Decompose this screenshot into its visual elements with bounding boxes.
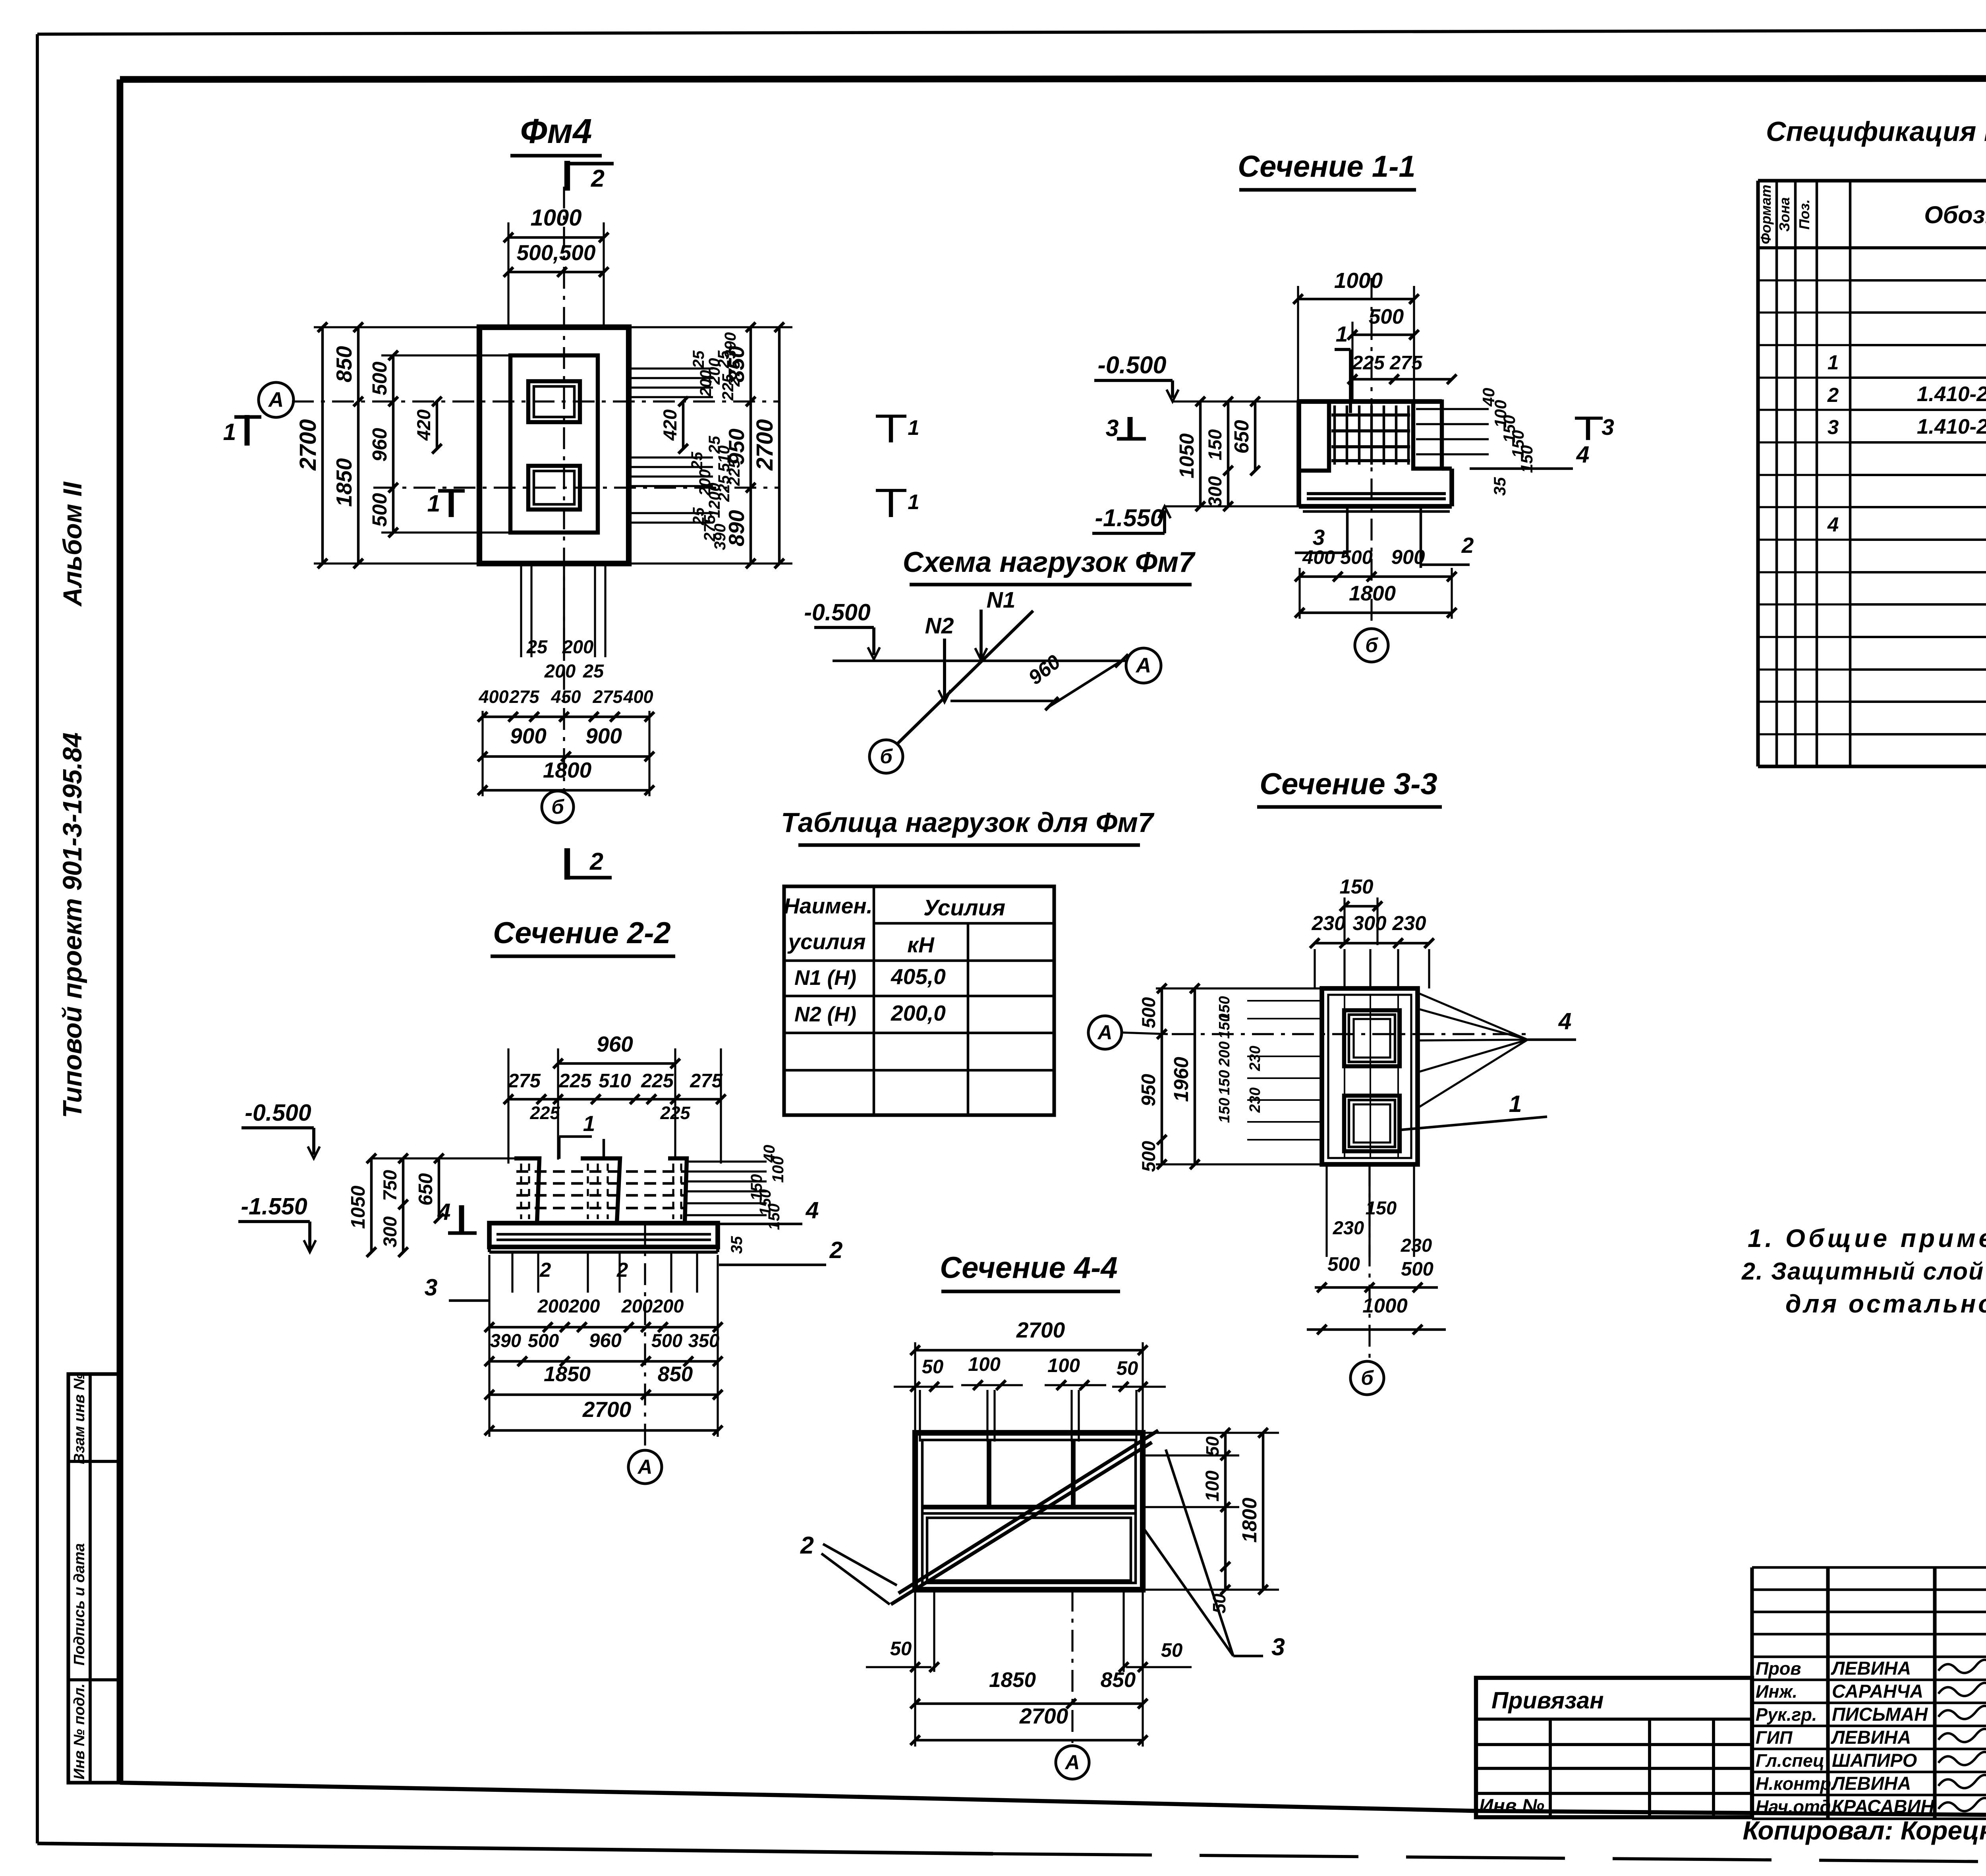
svg-text:350: 350 — [688, 1330, 719, 1351]
svg-text:Сечение 3-3: Сечение 3-3 — [1260, 767, 1437, 801]
svg-text:Инв № подл.: Инв № подл. — [71, 1683, 88, 1779]
svg-text:Сечение 4-4: Сечение 4-4 — [940, 1251, 1117, 1285]
svg-text:300: 300 — [1204, 476, 1225, 507]
svg-text:25: 25 — [583, 660, 604, 681]
svg-text:850: 850 — [658, 1363, 693, 1386]
svg-text:510: 510 — [599, 1070, 631, 1092]
svg-text:1: 1 — [1336, 322, 1348, 346]
svg-text:500: 500 — [368, 361, 391, 395]
svg-text:Поз.: Поз. — [1796, 199, 1812, 230]
svg-text:Подпись и дата: Подпись и дата — [71, 1543, 88, 1666]
svg-text:Схема нагрузок Фм7: Схема нагрузок Фм7 — [903, 546, 1196, 578]
svg-text:Сечение 2-2: Сечение 2-2 — [493, 916, 670, 950]
svg-text:1050: 1050 — [348, 1185, 369, 1229]
svg-text:2700: 2700 — [1016, 1318, 1065, 1342]
svg-text:275: 275 — [690, 1070, 723, 1092]
svg-text:ГИП: ГИП — [1756, 1727, 1793, 1748]
svg-text:500: 500 — [528, 1330, 559, 1351]
svg-text:2: 2 — [539, 1258, 551, 1281]
svg-text:850: 850 — [1101, 1668, 1136, 1692]
svg-text:ПИСЬМАН: ПИСЬМАН — [1832, 1704, 1928, 1725]
svg-text:3: 3 — [1602, 415, 1614, 440]
svg-text:3: 3 — [425, 1274, 438, 1301]
svg-text:275: 275 — [508, 1070, 541, 1092]
svg-text:1: 1 — [908, 490, 919, 514]
svg-text:1850: 1850 — [332, 458, 356, 507]
svg-text:ЛЕВИНА: ЛЕВИНА — [1831, 1727, 1911, 1748]
svg-text:4: 4 — [1827, 513, 1839, 536]
svg-text:390: 390 — [490, 1330, 521, 1351]
svg-text:1: 1 — [908, 416, 919, 440]
svg-text:4: 4 — [1558, 1008, 1572, 1035]
svg-text:1000: 1000 — [1334, 268, 1383, 293]
svg-text:1960: 1960 — [1170, 1057, 1192, 1102]
svg-text:25: 25 — [690, 350, 707, 369]
svg-text:Рук.гр.: Рук.гр. — [1756, 1704, 1817, 1725]
svg-text:N1 (Н): N1 (Н) — [794, 966, 856, 990]
svg-text:2. Защитный слой бетона для н: 2. Защитный слой бетона для нижней армат… — [1741, 1258, 1986, 1285]
svg-text:-0.500: -0.500 — [245, 1100, 311, 1126]
svg-text:225: 225 — [1352, 352, 1385, 374]
svg-text:Гл.спец: Гл.спец — [1756, 1751, 1824, 1771]
svg-text:б: б — [1361, 1366, 1374, 1389]
svg-text:3: 3 — [1271, 1633, 1285, 1660]
svg-text:2700: 2700 — [752, 419, 778, 471]
svg-text:А: А — [1097, 1021, 1113, 1044]
svg-text:150: 150 — [1216, 1013, 1233, 1038]
svg-text:230: 230 — [1392, 912, 1426, 934]
svg-text:Обозначение: Обозначение — [1924, 201, 1986, 228]
svg-text:1.410-2 вып.1: 1.410-2 вып.1 — [1917, 415, 1986, 438]
svg-text:890: 890 — [724, 510, 749, 546]
svg-text:900: 900 — [585, 724, 622, 748]
svg-text:-0.500: -0.500 — [1098, 351, 1167, 378]
svg-text:1850: 1850 — [989, 1668, 1036, 1692]
svg-text:Зона: Зона — [1776, 197, 1793, 232]
svg-text:2700: 2700 — [295, 419, 321, 471]
svg-text:50: 50 — [1209, 1594, 1229, 1614]
svg-text:Типовой проект 901-3-195.84: Типовой проект 901-3-195.84 — [58, 732, 87, 1118]
svg-text:Пров: Пров — [1756, 1658, 1801, 1679]
svg-text:Сечение 1-1: Сечение 1-1 — [1238, 150, 1415, 183]
svg-text:35: 35 — [728, 1236, 746, 1254]
svg-text:500: 500 — [1340, 547, 1373, 568]
svg-text:150: 150 — [1204, 429, 1225, 460]
svg-text:Н.контр.: Н.контр. — [1756, 1774, 1836, 1794]
svg-text:А: А — [1064, 1751, 1080, 1774]
svg-text:N1: N1 — [987, 587, 1016, 613]
svg-text:300: 300 — [379, 1216, 400, 1247]
svg-text:100: 100 — [1047, 1355, 1080, 1376]
svg-text:500: 500 — [651, 1330, 682, 1351]
svg-text:25: 25 — [688, 452, 706, 470]
svg-text:3: 3 — [1313, 525, 1325, 550]
svg-text:ЛЕВИНА: ЛЕВИНА — [1831, 1773, 1911, 1794]
svg-text:950: 950 — [724, 428, 749, 465]
svg-text:Фм4: Фм4 — [520, 112, 592, 151]
svg-text:Наимен.: Наимен. — [784, 894, 873, 918]
svg-text:275: 275 — [509, 687, 539, 707]
svg-text:50: 50 — [890, 1638, 912, 1660]
svg-text:кН: кН — [907, 932, 935, 957]
svg-text:960: 960 — [589, 1330, 622, 1351]
svg-text:500: 500 — [1138, 1141, 1159, 1172]
svg-text:1050: 1050 — [1175, 433, 1198, 478]
svg-text:400: 400 — [623, 687, 653, 707]
svg-text:900: 900 — [510, 724, 547, 748]
svg-text:225: 225 — [529, 1103, 560, 1123]
svg-text:500: 500 — [1401, 1258, 1433, 1280]
svg-text:230: 230 — [1311, 912, 1345, 934]
svg-text:Инв.№: Инв.№ — [1479, 1795, 1544, 1817]
svg-text:1: 1 — [583, 1111, 595, 1136]
svg-text:2: 2 — [591, 165, 605, 192]
svg-text:б: б — [880, 745, 893, 768]
svg-text:для остальной – 20мм.: для остальной – 20мм. — [1785, 1289, 1986, 1318]
svg-text:2: 2 — [800, 1532, 814, 1559]
svg-text:650: 650 — [415, 1173, 437, 1206]
svg-text:650: 650 — [1230, 420, 1253, 454]
svg-text:усилия: усилия — [787, 929, 866, 954]
svg-text:100: 100 — [769, 1156, 787, 1183]
svg-text:230: 230 — [1247, 1046, 1263, 1071]
svg-text:50: 50 — [1202, 1436, 1223, 1456]
svg-text:КРАСАВИН: КРАСАВИН — [1832, 1796, 1934, 1817]
svg-text:Таблица нагрузок для Фм7: Таблица нагрузок для Фм7 — [781, 807, 1155, 838]
svg-text:4: 4 — [806, 1197, 819, 1224]
svg-text:Инж.: Инж. — [1756, 1681, 1797, 1702]
svg-text:200: 200 — [1216, 1041, 1233, 1067]
svg-text:2: 2 — [589, 848, 603, 875]
svg-text:230: 230 — [1401, 1235, 1432, 1256]
svg-text:Усилия: Усилия — [923, 895, 1005, 921]
svg-text:1000: 1000 — [530, 205, 582, 231]
svg-text:-1.550: -1.550 — [1095, 504, 1164, 531]
svg-text:450: 450 — [551, 687, 581, 707]
svg-text:САРАНЧА: САРАНЧА — [1832, 1681, 1923, 1702]
svg-text:150: 150 — [1216, 1098, 1233, 1123]
svg-text:500: 500 — [1138, 997, 1159, 1028]
svg-text:Привязан: Привязан — [1491, 1687, 1604, 1714]
svg-text:200200: 200200 — [621, 1295, 684, 1316]
svg-text:405,0: 405,0 — [891, 964, 946, 989]
svg-text:1: 1 — [1509, 1091, 1522, 1117]
svg-text:950: 950 — [1138, 1074, 1159, 1106]
svg-text:б: б — [1365, 634, 1378, 656]
svg-text:500: 500 — [368, 493, 391, 527]
svg-text:750: 750 — [379, 1170, 400, 1201]
svg-text:200: 200 — [562, 636, 593, 657]
svg-text:1850: 1850 — [544, 1363, 591, 1386]
svg-text:1: 1 — [427, 490, 440, 517]
svg-text:А: А — [637, 1455, 653, 1478]
svg-text:900: 900 — [1391, 546, 1425, 568]
svg-text:420: 420 — [659, 409, 680, 441]
svg-text:230: 230 — [1333, 1217, 1364, 1238]
svg-text:1: 1 — [1828, 351, 1839, 374]
svg-text:Нач.отд.: Нач.отд. — [1756, 1797, 1836, 1817]
svg-text:-1.550: -1.550 — [241, 1193, 307, 1220]
svg-text:4: 4 — [1576, 442, 1590, 468]
svg-text:150: 150 — [1216, 1070, 1233, 1095]
svg-text:2: 2 — [616, 1258, 628, 1281]
svg-text:230: 230 — [1247, 1087, 1263, 1113]
svg-text:2700: 2700 — [1019, 1704, 1068, 1728]
svg-text:100: 100 — [968, 1354, 1001, 1375]
svg-text:50: 50 — [922, 1356, 944, 1378]
svg-text:850: 850 — [724, 346, 749, 382]
svg-text:2: 2 — [1461, 533, 1474, 558]
svg-text:50: 50 — [1117, 1358, 1138, 1379]
svg-text:-0.500: -0.500 — [804, 599, 870, 625]
svg-text:3: 3 — [1106, 415, 1119, 441]
svg-text:2: 2 — [829, 1237, 843, 1263]
svg-text:225: 225 — [558, 1070, 592, 1092]
svg-text:Альбом II: Альбом II — [58, 481, 87, 607]
svg-text:200,0: 200,0 — [891, 1001, 946, 1025]
svg-text:300: 300 — [1352, 912, 1386, 934]
svg-text:200: 200 — [544, 660, 576, 681]
svg-text:960: 960 — [597, 1032, 633, 1056]
svg-text:Копировал: Корецкая: Копировал: Корецкая — [1743, 1816, 1986, 1845]
svg-text:500: 500 — [1369, 305, 1404, 328]
svg-text:400: 400 — [1302, 547, 1335, 568]
svg-text:А: А — [1135, 654, 1151, 677]
svg-text:1800: 1800 — [1238, 1498, 1261, 1542]
svg-text:б: б — [551, 795, 564, 818]
svg-text:ЛЕВИНА: ЛЕВИНА — [1831, 1658, 1911, 1679]
svg-text:200200: 200200 — [537, 1295, 600, 1316]
svg-text:50: 50 — [1161, 1640, 1183, 1661]
svg-text:1. Общие примечания см. лист: 1. Общие примечания см. лист КЖ-12. — [1748, 1224, 1986, 1253]
svg-text:400: 400 — [478, 687, 508, 707]
svg-text:225: 225 — [641, 1070, 674, 1092]
svg-text:35: 35 — [1490, 477, 1509, 496]
svg-text:850: 850 — [332, 346, 356, 382]
svg-text:2: 2 — [1827, 384, 1839, 406]
svg-text:А: А — [268, 388, 284, 412]
svg-text:275: 275 — [1389, 352, 1423, 374]
svg-text:N2: N2 — [925, 613, 954, 639]
svg-text:N2 (Н): N2 (Н) — [794, 1003, 856, 1026]
svg-text:150: 150 — [765, 1204, 783, 1230]
svg-text:1800: 1800 — [543, 758, 592, 782]
svg-text:25: 25 — [526, 636, 548, 657]
svg-text:Спецификация к монолитному ф: Спецификация к монолитному фундаменту Фм… — [1766, 116, 1986, 147]
svg-text:1: 1 — [223, 419, 236, 445]
svg-text:100: 100 — [1202, 1471, 1223, 1502]
svg-text:Взам инв №: Взам инв № — [71, 1373, 88, 1464]
svg-text:Формат: Формат — [1758, 185, 1774, 244]
svg-text:150: 150 — [1339, 875, 1373, 898]
svg-text:500,500: 500,500 — [517, 240, 596, 265]
svg-text:ШАПИРО: ШАПИРО — [1832, 1750, 1917, 1771]
svg-text:420: 420 — [413, 409, 434, 441]
svg-text:500: 500 — [1327, 1254, 1360, 1275]
svg-text:960: 960 — [368, 428, 391, 461]
svg-text:275: 275 — [592, 687, 623, 707]
svg-text:2700: 2700 — [582, 1397, 632, 1422]
svg-text:3: 3 — [1828, 416, 1839, 438]
svg-text:1.410-2 вып.1: 1.410-2 вып.1 — [1917, 382, 1986, 406]
